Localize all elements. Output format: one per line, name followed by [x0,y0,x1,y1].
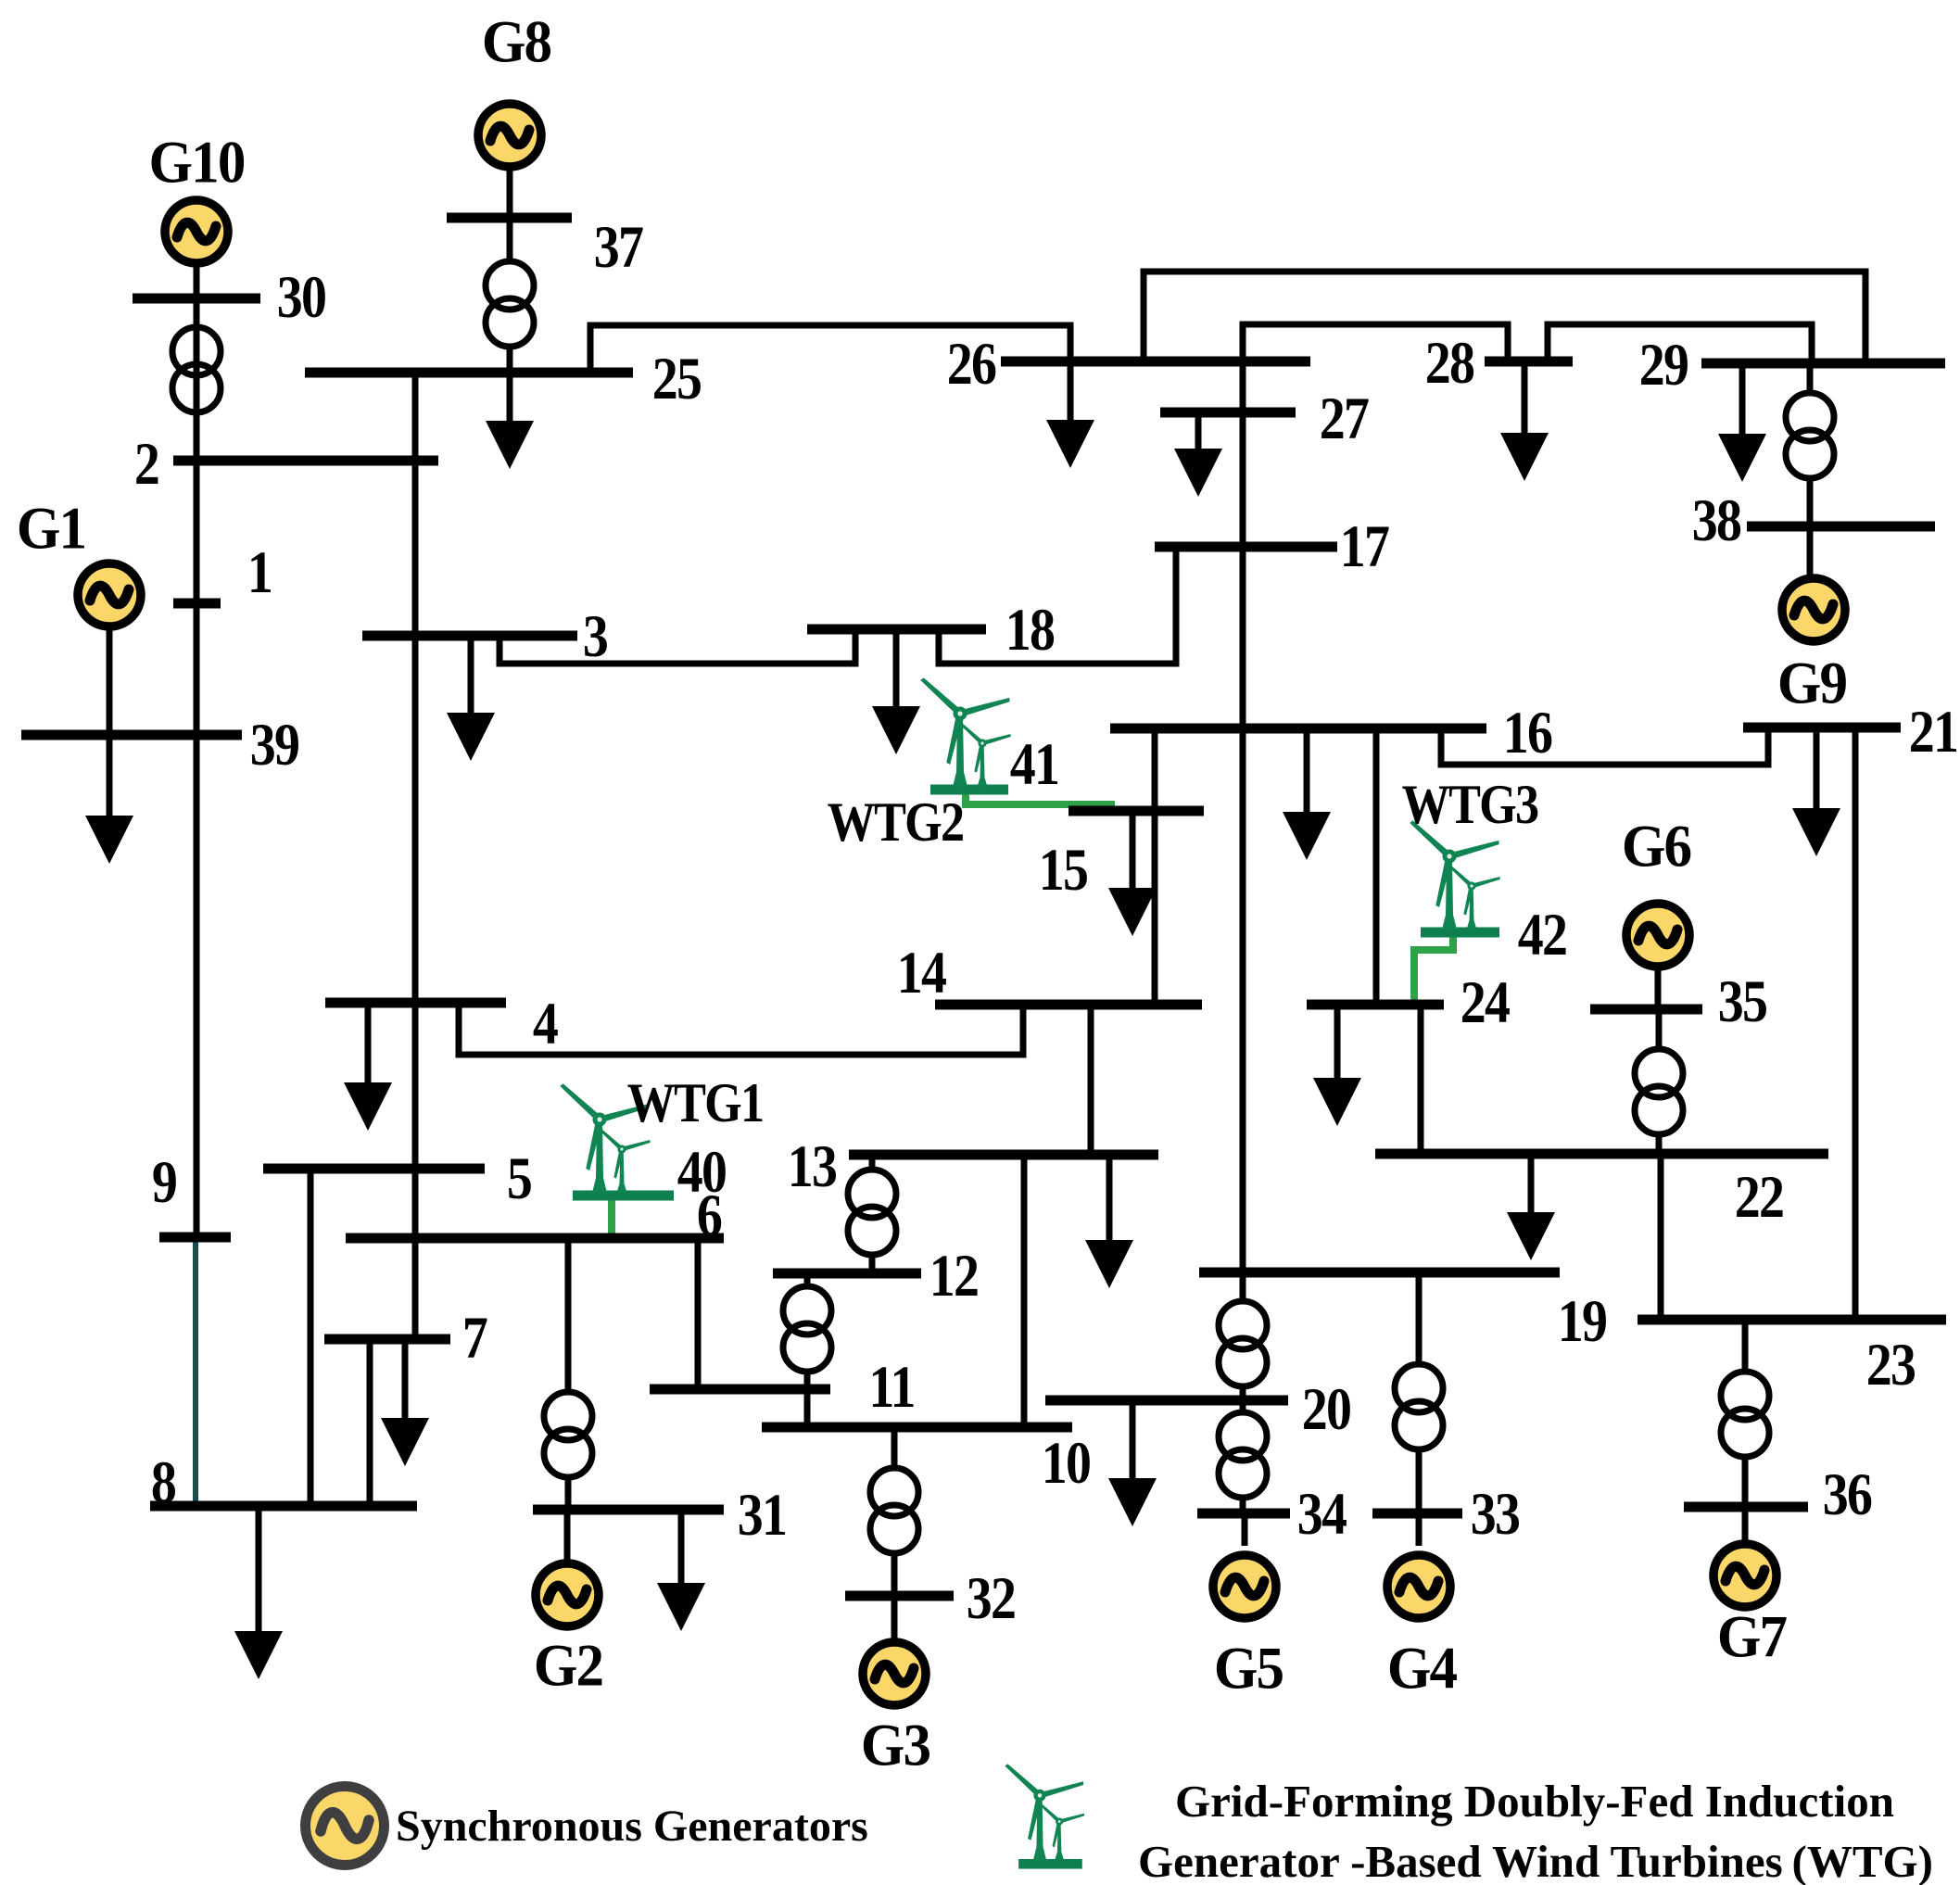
svg-text:25: 25 [652,346,702,412]
svg-text:13: 13 [788,1133,837,1200]
wire bus6 to T6-31 [565,1238,572,1394]
load at bus 28 [1500,361,1549,481]
svg-text:30: 30 [277,264,325,331]
load at bus 20 [1108,1400,1157,1526]
svg-text:7: 7 [462,1305,487,1372]
wire 21-23 vertical [1853,727,1859,1320]
wire 28-29 [1548,324,1812,363]
bus 10 [762,1423,1072,1433]
wire 25-26 [590,325,1070,373]
transformer T19-33 [1395,1364,1443,1449]
bus 2 [173,456,438,466]
bus 6 [346,1233,724,1244]
svg-text:12: 12 [929,1243,978,1309]
bus 32 [845,1591,954,1601]
bus 40 (WTG green bus) [573,1191,674,1201]
load at bus 18 [872,629,920,754]
wire bus29 to T29-38 [1807,363,1814,396]
wire 9-8 (teal) [193,1237,198,1506]
wire bus19 to T19-20 [1240,1272,1246,1302]
bus 23 [1638,1315,1946,1325]
generator G8 [478,104,541,167]
wire bus36 to G7 [1742,1507,1749,1541]
wire 5-8 vertical [308,1169,314,1506]
wire bus34 to G5 [1242,1513,1248,1546]
wire 24-22 vertical [1418,1005,1424,1154]
svg-text:38: 38 [1692,487,1741,554]
load at bus 27 [1174,412,1222,497]
wire T37 to bus25 [507,344,513,373]
wind turbine WTG1 (at bus 40) [559,1082,651,1193]
svg-text:18: 18 [1005,597,1055,664]
transformer T13-12 [848,1170,896,1255]
wire bus20 to T20-34 [1240,1400,1246,1414]
load at bus 4 [344,1003,392,1131]
wire 26-28 [1243,324,1508,361]
svg-text:37: 37 [594,214,643,281]
wire 3-18 [499,629,855,664]
load at bus 29 [1718,363,1766,482]
bus 3 [362,631,577,641]
wire T12-11 to bus11 [804,1371,811,1389]
wire bus33 to G4 [1416,1513,1423,1546]
load at bus 8 [234,1506,283,1679]
load at bus 39 [85,735,133,864]
wire WTG3 bus42 to bus24 [1414,932,1453,1005]
load at bus 21 [1792,727,1840,856]
bus 21 [1743,723,1901,733]
wire T10-32 to bus32 [891,1551,898,1596]
wire bus23 to T23-36 [1742,1320,1749,1373]
svg-text:6: 6 [697,1183,722,1249]
generator G7 [1713,1544,1777,1607]
wire 18-17 [939,547,1176,664]
wire bus12 to T12-11 [804,1273,811,1289]
bus 11 [650,1385,830,1395]
wire 6-11 vertical [695,1238,702,1389]
wire 22-23 vertical [1658,1154,1664,1320]
svg-text:26: 26 [947,331,996,398]
wire bus35 to T35-22 [1656,1009,1663,1051]
wire bus19 to T19-33 [1416,1272,1423,1366]
bus 25 [305,368,633,378]
load at bus 24 [1313,1005,1361,1126]
transformer T12-11 [783,1286,831,1372]
svg-text:14: 14 [897,940,947,1006]
bus 41 (WTG green bus) [930,785,1008,795]
load at bus 13 [1085,1155,1133,1288]
transformer T19-20 [1219,1301,1267,1386]
svg-text:21: 21 [1909,699,1957,765]
wire 26-29 [1144,272,1865,363]
wire WTG1 bus40 to bus6 [608,1196,615,1238]
svg-text:G4: G4 [1387,1635,1458,1702]
bus 31 [533,1505,724,1515]
wire 16-24 vertical [1373,728,1380,1005]
wire 13-10 vertical [1021,1155,1028,1427]
load at bus 22 [1507,1154,1555,1260]
generator G6 [1626,904,1689,967]
svg-text:1: 1 [247,539,272,606]
wire T13-12 to bus12 [869,1254,876,1273]
svg-text:G9: G9 [1777,650,1847,716]
transformer T23-36 [1721,1372,1769,1457]
wire bus13 to T13-12 [869,1155,876,1172]
wire bus31 to G2 [564,1510,571,1561]
bus 42 (WTG green bus) [1421,928,1499,938]
load at bus 25 [486,373,534,469]
wire WTG2 bus41 to bus15 [966,788,1115,804]
wire 4-14 [459,1003,1023,1055]
svg-text:15: 15 [1039,837,1088,904]
bus 1 [173,599,221,609]
bus 39 [21,730,242,740]
wire bus38 to G9 [1807,526,1814,576]
transformer T35-22 [1635,1049,1683,1134]
generator G5 [1213,1555,1276,1618]
transformer T37 (G8-37) [486,261,534,347]
wire 16-15-14 vertical [1152,728,1158,1005]
wire T35-22 to bus22 [1656,1133,1663,1154]
load at bus 15 [1108,811,1157,936]
generator G3 [863,1642,926,1705]
svg-text:33: 33 [1471,1481,1520,1548]
svg-text:29: 29 [1639,332,1688,399]
svg-text:G6: G6 [1622,813,1691,879]
load at bus 26 [1046,361,1094,468]
wire 11-10 [804,1389,811,1427]
svg-text:G10: G10 [149,129,245,196]
svg-text:41: 41 [1010,731,1058,798]
transformer T30 (G10-30) [172,327,221,412]
bus 8 [150,1501,417,1512]
svg-text:19: 19 [1558,1288,1607,1355]
svg-text:20: 20 [1302,1376,1350,1443]
svg-text:23: 23 [1866,1332,1916,1398]
bus 17 [1155,542,1337,552]
svg-text:4: 4 [533,991,559,1057]
load at bus 7 [381,1339,429,1466]
wire T20-34 to bus34 [1240,1497,1246,1513]
bus 14 [935,1000,1202,1010]
transformer T29-38 [1786,393,1834,478]
svg-text:17: 17 [1340,513,1389,580]
bus 5 [263,1164,485,1174]
svg-text:11: 11 [868,1354,914,1421]
svg-text:G1: G1 [17,495,85,562]
bus 7 [324,1335,450,1345]
wire 26-27-17-16-19 vertical [1240,361,1246,1272]
load at bus 3 [447,636,495,761]
generator G10 [165,200,228,263]
wire T19-33 to bus33 [1416,1449,1423,1513]
bus 26 [1001,357,1310,367]
svg-text:WTG3: WTG3 [1402,775,1538,836]
bus 33 [1372,1509,1462,1519]
bus 35 [1590,1005,1702,1015]
bus 24 [1307,1000,1444,1010]
wire bus37 to T37 [507,218,513,263]
generator G4 [1387,1555,1450,1618]
svg-text:31: 31 [738,1482,786,1549]
svg-text:16: 16 [1503,700,1552,766]
svg-text:Grid-Forming Doubly-Fed Induct: Grid-Forming Doubly-Fed Induction [1175,1776,1894,1827]
svg-text:8: 8 [151,1449,176,1516]
bus 13 [849,1150,1158,1160]
svg-text:Generator -Based Wind Turbines: Generator -Based Wind Turbines (WTG) [1138,1836,1933,1885]
load at bus 31 [657,1510,705,1631]
wind turbine WTG2 (at bus 41) [919,677,1011,787]
svg-text:WTG1: WTG1 [627,1073,764,1134]
generator G1 [78,563,141,626]
wire 14-13 vertical [1088,1005,1094,1155]
svg-text:9: 9 [152,1149,177,1216]
svg-text:39: 39 [250,712,299,778]
transformer T10-32 [870,1468,918,1553]
wire bus32 to G3 [891,1596,898,1639]
transformer T6-31 [544,1392,592,1477]
transformer T20-34 [1219,1412,1267,1498]
bus 34 [1197,1509,1290,1519]
bus 4 [325,998,506,1008]
wire 16-21 [1441,727,1768,765]
wire 7-8 vertical [367,1339,373,1506]
wire G6 to bus35 [1655,970,1662,1009]
bus 19 [1199,1268,1560,1278]
svg-text:2: 2 [134,431,158,498]
wire bus10 to T10-32 [891,1427,898,1469]
svg-text:5: 5 [507,1145,532,1212]
wire T29-38 to bus38 [1807,476,1814,526]
svg-text:G2: G2 [534,1632,602,1699]
bus 36 [1684,1502,1808,1512]
wind turbine WTG3 (at bus 42) [1409,819,1500,930]
svg-text:32: 32 [967,1565,1015,1632]
svg-text:10: 10 [1042,1430,1090,1497]
svg-text:24: 24 [1461,969,1511,1036]
bus 18 [807,625,986,635]
svg-text:G7: G7 [1717,1603,1787,1670]
bus 37 [447,213,572,223]
load at bus 16 [1283,728,1331,860]
bus 22 [1375,1149,1828,1159]
wire T19-20 to bus20 [1240,1385,1246,1400]
svg-text:27: 27 [1320,386,1369,452]
wire T6-31 to bus31 [565,1476,572,1510]
wire G1 to bus39 [107,630,113,735]
bus 15 [1069,806,1204,816]
svg-text:G8: G8 [482,8,551,75]
wire T23-36 to bus36 [1742,1455,1749,1507]
svg-text:36: 36 [1823,1461,1872,1528]
bus 20 [1045,1396,1288,1406]
svg-text:G5: G5 [1214,1635,1283,1702]
wire G8 to bus37 [507,171,513,218]
generator G9 [1782,578,1845,641]
svg-text:34: 34 [1297,1481,1347,1548]
bus 38 [1747,522,1935,532]
svg-text:G3: G3 [861,1712,930,1778]
bus 16 [1110,724,1486,734]
bus 28 [1485,357,1573,367]
generator G2 [536,1563,599,1626]
svg-text:22: 22 [1735,1164,1783,1231]
bus 30 [133,294,260,304]
svg-text:42: 42 [1518,902,1566,968]
wire G10 to bus9 (through 30,2,1,39) [194,267,200,1237]
svg-text:3: 3 [583,603,608,670]
svg-text:35: 35 [1718,968,1767,1035]
svg-text:Synchronous Generators: Synchronous Generators [396,1802,868,1851]
legend synchronous generator symbol [306,1787,385,1866]
legend wind turbine symbol [1004,1763,1084,1869]
bus 12 [773,1269,921,1279]
svg-text:28: 28 [1425,330,1474,397]
bus 9 [159,1233,231,1243]
bus 27 [1160,408,1296,418]
bus 29 [1701,359,1945,369]
wire bus25 to bus7 (through 2,3,4,5,6) [412,373,419,1339]
svg-text:WTG2: WTG2 [828,792,964,854]
